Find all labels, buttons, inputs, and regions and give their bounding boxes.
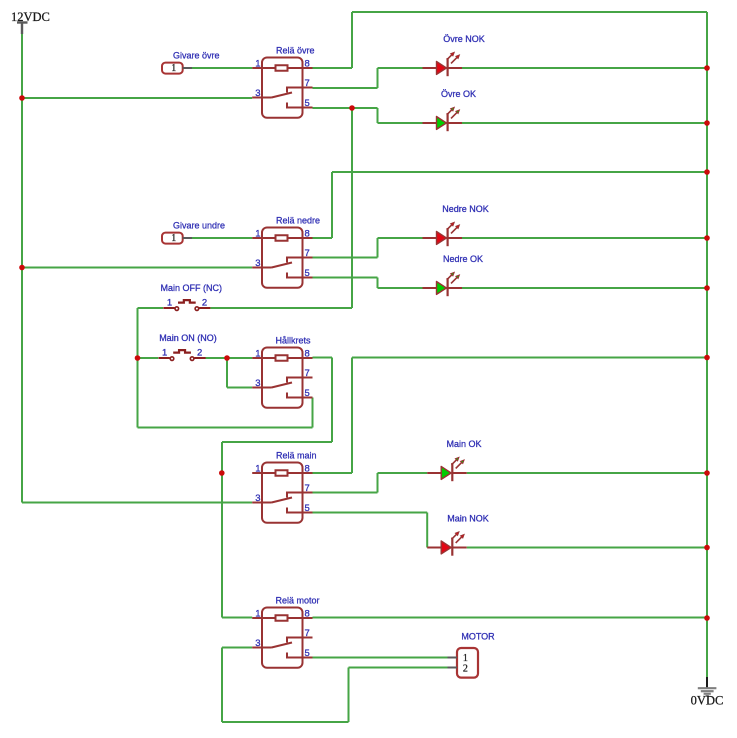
svg-text:1: 1 xyxy=(167,298,172,309)
svg-text:8: 8 xyxy=(305,464,310,475)
svg-text:1: 1 xyxy=(171,63,176,74)
svg-text:Relä motor: Relä motor xyxy=(276,596,320,606)
svg-text:7: 7 xyxy=(305,78,310,89)
svg-text:2: 2 xyxy=(202,298,207,309)
svg-text:12VDC: 12VDC xyxy=(11,10,50,24)
svg-text:1: 1 xyxy=(255,609,260,620)
svg-text:1: 1 xyxy=(255,464,260,475)
svg-text:0VDC: 0VDC xyxy=(691,694,724,708)
svg-text:5: 5 xyxy=(305,98,310,109)
svg-text:1: 1 xyxy=(171,233,176,244)
svg-text:5: 5 xyxy=(305,503,310,514)
svg-text:8: 8 xyxy=(305,59,310,70)
svg-text:Main NOK: Main NOK xyxy=(447,514,489,524)
svg-text:3: 3 xyxy=(255,258,260,269)
svg-text:Main ON (NO): Main ON (NO) xyxy=(159,333,217,343)
svg-text:Övre OK: Övre OK xyxy=(441,89,476,99)
svg-text:Main OK: Main OK xyxy=(446,439,481,449)
svg-text:5: 5 xyxy=(305,268,310,279)
svg-text:8: 8 xyxy=(305,609,310,620)
svg-text:1: 1 xyxy=(255,349,260,360)
svg-text:1: 1 xyxy=(162,348,167,359)
svg-text:7: 7 xyxy=(305,248,310,259)
svg-text:3: 3 xyxy=(255,378,260,389)
svg-text:3: 3 xyxy=(255,638,260,649)
svg-text:Hållkrets: Hållkrets xyxy=(276,336,312,346)
svg-text:8: 8 xyxy=(305,349,310,360)
svg-text:Övre NOK: Övre NOK xyxy=(443,34,485,44)
svg-text:5: 5 xyxy=(305,388,310,399)
svg-text:7: 7 xyxy=(305,483,310,494)
svg-text:3: 3 xyxy=(255,88,260,99)
svg-text:Givare undre: Givare undre xyxy=(173,221,225,231)
svg-text:3: 3 xyxy=(255,493,260,504)
svg-text:Relä övre: Relä övre xyxy=(276,46,315,56)
svg-text:8: 8 xyxy=(305,229,310,240)
svg-text:2: 2 xyxy=(463,663,468,674)
svg-text:Relä main: Relä main xyxy=(276,451,317,461)
svg-text:Nedre OK: Nedre OK xyxy=(443,254,483,264)
svg-text:1: 1 xyxy=(255,59,260,70)
svg-text:MOTOR: MOTOR xyxy=(461,631,495,641)
svg-text:7: 7 xyxy=(305,628,310,639)
svg-text:5: 5 xyxy=(305,648,310,659)
svg-text:Relä nedre: Relä nedre xyxy=(276,216,320,226)
svg-text:Main OFF (NC): Main OFF (NC) xyxy=(161,283,223,293)
svg-text:1: 1 xyxy=(255,229,260,240)
svg-text:Givare övre: Givare övre xyxy=(173,51,220,61)
svg-text:2: 2 xyxy=(197,348,202,359)
svg-text:7: 7 xyxy=(305,368,310,379)
svg-text:Nedre NOK: Nedre NOK xyxy=(442,204,489,214)
